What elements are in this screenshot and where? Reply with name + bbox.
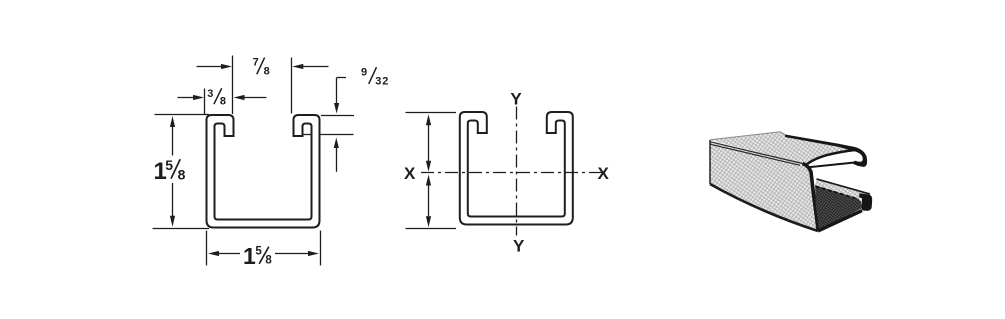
svg-text:9: 9 [361,67,367,79]
svg-text:Y: Y [510,89,522,108]
svg-text:8: 8 [265,254,272,266]
svg-text:5: 5 [165,157,173,173]
svg-text:5: 5 [255,245,262,257]
svg-text:8: 8 [264,65,270,77]
svg-text:X: X [404,164,416,183]
svg-text:1: 1 [243,243,256,269]
svg-text:8: 8 [220,95,226,107]
svg-text:3: 3 [207,88,213,100]
svg-text:8: 8 [178,167,186,183]
svg-text:7: 7 [253,56,259,68]
svg-text:32: 32 [375,75,389,87]
svg-text:X: X [598,164,610,183]
svg-text:Y: Y [513,237,525,256]
